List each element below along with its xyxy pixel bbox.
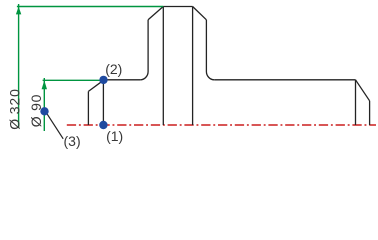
dimension D90 extension line xyxy=(43,79,104,81)
node 3 point xyxy=(40,107,48,115)
wire cone taper edge xyxy=(88,80,103,91)
svg-text:(2): (2) xyxy=(105,61,122,77)
dimension D320 line vertical xyxy=(18,4,20,128)
wire shaft end chamfer xyxy=(356,80,370,101)
wire flange right chamfer xyxy=(193,7,207,20)
node 1 point xyxy=(99,121,107,129)
svg-text:(1): (1) xyxy=(106,128,123,144)
wire flange right outer vertical xyxy=(205,20,207,72)
wire flange inner left vertical xyxy=(162,7,164,126)
dimension D320 extension line xyxy=(17,6,163,8)
wire shaft end face vertical xyxy=(355,80,357,125)
wire flange left outer vertical xyxy=(147,20,149,72)
dimension D90 line vertical xyxy=(43,78,45,131)
wire mid vertical under node 2 xyxy=(102,80,104,125)
wire flange top edge xyxy=(163,6,192,8)
svg-text:Ø 90: Ø 90 xyxy=(28,94,44,128)
dimension D90 arrow xyxy=(42,80,47,89)
wire left fillet arc xyxy=(140,72,148,80)
wire step small-diameter vertical xyxy=(87,91,89,125)
wire flange inner right vertical xyxy=(192,7,194,126)
svg-text:(3): (3) xyxy=(64,133,81,149)
wire right shaft top horizontal xyxy=(214,79,355,81)
wire shaft end inner vertical xyxy=(369,101,371,125)
wire flange left chamfer xyxy=(148,7,163,20)
dimension D320 arrow xyxy=(16,7,21,15)
wire right fillet arc xyxy=(206,72,214,80)
svg-text:Ø 320: Ø 320 xyxy=(7,88,23,130)
centerline (red dash-dot axis) xyxy=(65,124,376,126)
node 2 point xyxy=(99,76,107,84)
wire left shaft top horizontal xyxy=(103,79,140,81)
leader line to node 3 label xyxy=(47,114,63,139)
